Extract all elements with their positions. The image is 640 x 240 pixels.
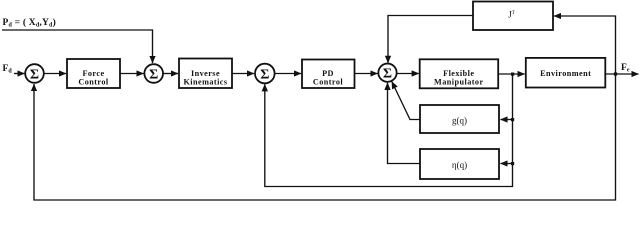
svg-text:Fd: Fd — [3, 64, 13, 75]
svg-text:Σ: Σ — [30, 68, 39, 83]
svg-text:Σ: Σ — [149, 68, 158, 83]
svg-text:g(q): g(q) — [452, 115, 467, 125]
svg-text:Σ: Σ — [260, 68, 269, 83]
svg-text:Fe: Fe — [621, 63, 630, 74]
svg-text:Environment: Environment — [540, 69, 591, 78]
svg-text:Pd = ( Xd,Yd): Pd = ( Xd,Yd) — [3, 17, 56, 29]
svg-text:η(q): η(q) — [452, 160, 467, 170]
svg-text:Σ: Σ — [383, 67, 392, 82]
svg-text:Kinematics: Kinematics — [183, 77, 227, 86]
svg-text:Control: Control — [313, 78, 344, 87]
svg-text:Manipulator: Manipulator — [434, 78, 484, 87]
svg-text:Control: Control — [78, 78, 109, 87]
